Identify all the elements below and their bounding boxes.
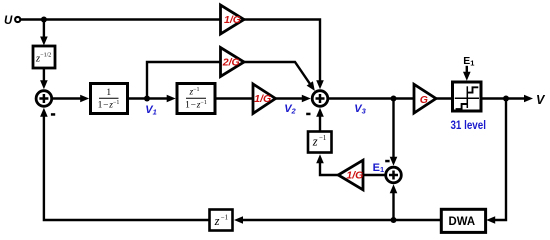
wire: quantizer to terminal V <box>481 95 533 103</box>
wire: delay z^-1 (bottom) to S1 <box>40 108 209 220</box>
wire: G to quantizer <box>435 97 452 99</box>
wire: output feedback down to DWA <box>486 99 506 224</box>
node: feedback branch junction dot <box>391 217 397 223</box>
wire: S2 to amplifier G <box>329 97 415 99</box>
wire: E1 into quantizer top <box>463 66 471 81</box>
wire: DWA to delay z^-1 (bottom) <box>234 216 441 224</box>
svg-text:1/G: 1/G <box>254 93 271 105</box>
wire: 1/G to summing junction S2 <box>276 95 311 103</box>
wire: branch down to z^-1/2 block <box>40 20 48 46</box>
wire: V1 up and right to amplifier 2/G <box>147 62 221 99</box>
svg-text:G: G <box>420 94 428 106</box>
block integrator 1: 1/(1-z^-1) <box>91 84 128 114</box>
svg-text:z: z <box>312 135 318 149</box>
amplifier 1/G (error scaling, points left) <box>338 160 363 190</box>
summing junction S3 (error extraction) <box>386 167 402 183</box>
terminal U <box>15 17 20 22</box>
amplifier 1/G (input feedforward, top) <box>221 5 245 34</box>
svg-text:E1: E1 <box>463 56 474 67</box>
wire: integrator 1 to integrator 2 <box>128 95 176 103</box>
wire: branch up into summing junction S3 <box>390 184 398 220</box>
node: junction dot at U branch <box>41 17 47 23</box>
amplifier 2/G <box>221 48 245 77</box>
wire: U input along top, down into summing junction S2 <box>21 20 324 90</box>
quantizer Q (31 level) <box>453 82 482 111</box>
svg-text:−1/2: −1/2 <box>40 53 51 59</box>
svg-text:1/G: 1/G <box>224 14 241 26</box>
wire: delay z^-1 (mid) up into S2 <box>316 108 324 132</box>
svg-text:1/G: 1/G <box>346 170 363 182</box>
block integrator 2: z^-1/(1-z^-1) <box>177 84 215 114</box>
svg-text:2/G: 2/G <box>222 56 240 68</box>
block delay z^-1 (bottom) <box>210 210 233 231</box>
wire: 1/G to delay z^-1 (mid) <box>316 154 338 175</box>
wire: V3 node down into summing junction S3 <box>390 99 398 166</box>
block DWA <box>441 209 485 232</box>
svg-text:−1: −1 <box>319 135 326 142</box>
node V3 junction dot <box>391 96 397 102</box>
minus sign at S3 (subtract V3) <box>385 160 389 163</box>
svg-text:1: 1 <box>106 88 111 98</box>
svg-text:DWA: DWA <box>449 215 476 228</box>
wire: S3 to amplifier 1/G (error path) <box>364 174 386 176</box>
block half-delay z^-1/2 <box>33 46 55 68</box>
node V1 junction dot <box>144 96 150 102</box>
svg-text:z: z <box>214 214 220 228</box>
node: output junction dot <box>503 96 509 102</box>
wire: z^-1/2 to summing junction S1 <box>40 68 48 89</box>
amplifier 1/G (feedforward) <box>253 84 276 114</box>
amplifier G <box>414 84 436 113</box>
svg-text:31 level: 31 level <box>450 119 486 132</box>
wire: 2/G diagonal into summing junction S2 <box>244 62 315 91</box>
minus sign at S1 feedback input <box>51 113 55 116</box>
block delay z^-1 (mid) <box>308 132 332 153</box>
wire: S1 to integrator 1 <box>52 95 89 103</box>
summing junction S2 <box>312 91 328 107</box>
minus sign at S2 feedback input <box>306 113 310 116</box>
wire: integrator 2 to amplifier 1/G <box>215 97 254 99</box>
summing junction S1 <box>36 91 52 107</box>
svg-text:U: U <box>4 15 13 27</box>
svg-text:−1: −1 <box>221 215 228 222</box>
